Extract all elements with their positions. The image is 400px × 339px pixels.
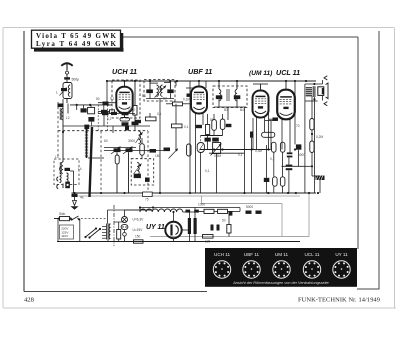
- tube socket UCL 11: [303, 261, 320, 278]
- capacitor C31: [246, 211, 252, 214]
- resistor R7: [172, 124, 183, 128]
- value label 100p: [128, 108, 135, 112]
- selector contacts: [84, 227, 101, 238]
- dashed box oscillator coil: [131, 159, 154, 185]
- value label 50: [222, 219, 226, 223]
- wire R16: [195, 210, 218, 212]
- resistor R27: [218, 209, 233, 215]
- resistor R3: [133, 106, 137, 116]
- capacitor C17: [135, 120, 141, 123]
- ground chain capacitor: [72, 194, 78, 197]
- tube socket UY 11: [333, 261, 350, 278]
- svg-text:75: 75: [145, 198, 149, 202]
- wire R9: [213, 114, 215, 136]
- trim arrow L1: [60, 88, 67, 96]
- schematic frame top border: [120, 36, 358, 38]
- wire pot drops: [201, 153, 217, 194]
- svg-text:UM 11: UM 11: [275, 252, 289, 257]
- svg-text:500p: 500p: [72, 78, 80, 82]
- label tube UBF 11: [188, 67, 212, 76]
- wire lamp down: [124, 236, 126, 241]
- resistor R18: [203, 235, 214, 239]
- wire: [175, 81, 177, 86]
- capacitor C15: [146, 89, 153, 93]
- wire R5 leads: [166, 103, 191, 105]
- capacitor C20: [216, 95, 223, 99]
- coil L6 IF1 secondary: [161, 85, 163, 96]
- svg-text:50: 50: [96, 97, 100, 101]
- capacitor C13: [150, 149, 157, 153]
- wire L1 down: [66, 99, 68, 104]
- wire heater ends: [140, 208, 196, 213]
- resistor R6: [146, 117, 157, 121]
- terminal chevron lower: [324, 102, 327, 106]
- label tube UY 11: [146, 224, 165, 231]
- svg-text:Ansicht der Röhrenfassungen vo: Ansicht der Röhrenfassungen von der Verd…: [232, 281, 328, 285]
- svg-text:4x: 4x: [80, 196, 84, 200]
- socket panel caption: [232, 281, 328, 285]
- resistor R2 oval: [120, 118, 130, 122]
- terminal arc antenna input: [60, 167, 61, 172]
- wire R8: [207, 114, 209, 150]
- wire IF2 bottom row: [214, 106, 246, 108]
- svg-text:Viola T 65 49 GWK: Viola T 65 49 GWK: [36, 32, 117, 40]
- label voltages: [133, 218, 145, 233]
- value label 1000: [198, 203, 205, 207]
- page edge top: [3, 27, 394, 29]
- socket label UM 11: [275, 252, 289, 257]
- socket label UBF 11: [244, 252, 260, 257]
- capacitor C23 det: [205, 138, 211, 142]
- resistor R19 mains: [134, 240, 144, 243]
- fuse Si: [54, 217, 72, 221]
- wire C1 to L1: [66, 80, 68, 83]
- svg-text:1M: 1M: [155, 154, 160, 158]
- value label C1: [72, 78, 80, 82]
- resistor R29 oval: [140, 144, 145, 156]
- wire power bottom bus: [57, 241, 300, 243]
- svg-text:3000: 3000: [128, 139, 135, 143]
- wire pot: [141, 138, 143, 159]
- wire frame gray box top: [201, 196, 282, 204]
- wire speaker bottom: [322, 95, 324, 100]
- tube socket UCH 11: [213, 261, 230, 278]
- label tube UCH 11: [112, 67, 137, 76]
- value label 3000: [128, 139, 135, 143]
- value label 0,1M: [183, 98, 190, 102]
- capacitor C40: [194, 210, 199, 213]
- svg-text:UCH 11: UCH 11: [214, 252, 230, 257]
- wire UBF grid: [189, 88, 191, 193]
- capacitor C18 grid UBF: [187, 94, 193, 97]
- capacitor C16: [167, 89, 173, 93]
- svg-text:U=6,3V: U=6,3V: [133, 218, 145, 222]
- svg-text:1000: 1000: [198, 203, 205, 207]
- svg-text:0,5M: 0,5M: [214, 154, 221, 158]
- value label 5000: [298, 153, 305, 157]
- dash-dot mains boundary: [113, 205, 115, 246]
- capacitor C33: [250, 132, 253, 138]
- svg-text:110V: 110V: [61, 234, 69, 238]
- tube UCL 11: [277, 90, 295, 120]
- terminal arcs ground: [57, 177, 58, 189]
- wire ground chain: [74, 197, 76, 201]
- svg-text:120: 120: [205, 240, 211, 244]
- shielded plug: [65, 182, 70, 189]
- dashed tuning gang link: [58, 130, 148, 132]
- dashed box oscillator section: [112, 80, 140, 118]
- wire chassis bus 1: [72, 192, 317, 194]
- wire tap: [303, 165, 314, 167]
- wire row mid: [186, 87, 194, 89]
- capacitor C39: [186, 210, 191, 213]
- dashed box IF transformer 1: [144, 80, 175, 102]
- coil L8 IF2 secondary: [235, 90, 237, 101]
- svg-text:0,1M: 0,1M: [183, 98, 190, 102]
- svg-text:L: L: [56, 91, 58, 95]
- title text Viola T 65 49 GWK: [36, 32, 117, 40]
- svg-text:5000: 5000: [246, 205, 253, 209]
- value label 0,1: [238, 153, 243, 157]
- value label 0,2M: [316, 135, 323, 139]
- svg-text:B1: B1: [142, 94, 146, 98]
- wire ballast bottom: [107, 240, 109, 242]
- wire chassis bus 2: [74, 195, 300, 197]
- wire: [134, 122, 136, 131]
- value label 5000: [246, 205, 253, 209]
- capacitor C27 electrolytic: [316, 176, 325, 181]
- resistor R17: [227, 225, 231, 234]
- title text Lyra T 64 49 GWK: [36, 40, 117, 48]
- resistor R16 smoothing: [204, 209, 214, 213]
- svg-text:B3: B3: [224, 108, 228, 112]
- coupling arrow IF1: [155, 86, 167, 98]
- label tube (UM 11): [249, 70, 272, 77]
- junction dot right: [311, 133, 313, 135]
- wire antenna lead: [66, 74, 68, 77]
- resistor R15: [117, 230, 121, 240]
- value label 0,1: [184, 125, 189, 129]
- dashed box IF transformer 2: [213, 86, 247, 108]
- capacitor C37: [264, 178, 270, 182]
- wire UCL pins: [282, 119, 290, 152]
- svg-text:0,1: 0,1: [184, 125, 189, 129]
- value label 60: [104, 139, 108, 143]
- wire T1 sec down: [313, 97, 315, 193]
- wire R17: [228, 212, 230, 237]
- dashed gang link vertical 1: [100, 131, 102, 193]
- wire: [103, 114, 105, 127]
- wire: [67, 104, 69, 114]
- value label 0,1: [107, 117, 112, 121]
- socket label UCL 11: [304, 252, 320, 257]
- wire RF drops: [77, 105, 104, 110]
- svg-text:(UM 11): (UM 11): [249, 70, 272, 77]
- wire AVC feedback line: [200, 149, 271, 151]
- wire R13: [311, 97, 313, 135]
- wire C27: [312, 176, 320, 193]
- resistor R21 oval horizontal: [262, 132, 275, 137]
- svg-text:5000: 5000: [298, 153, 305, 157]
- resistor R25 oval: [280, 177, 285, 186]
- value label 50: [96, 97, 100, 101]
- value label 70: [296, 124, 300, 128]
- resistor R23 oval: [280, 142, 285, 152]
- transformer T1 output: [306, 86, 315, 97]
- svg-text:UBF 11: UBF 11: [244, 252, 260, 257]
- page edge bottom: [3, 307, 396, 309]
- wire choke: [228, 208, 241, 212]
- wire: [149, 113, 151, 117]
- wire osc coupling: [88, 157, 104, 159]
- wire: [252, 118, 254, 150]
- wire row: [98, 111, 110, 113]
- value label 50: [210, 118, 214, 122]
- column rule bottom segment: [357, 288, 380, 290]
- speaker LS: [318, 83, 328, 99]
- value label L3: [55, 155, 59, 159]
- capacitor C36 coupling: [286, 165, 293, 171]
- value label 0,5M: [214, 154, 221, 158]
- wire drops IF1 area: [160, 99, 176, 194]
- svg-text:U=19V: U=19V: [133, 228, 144, 232]
- ground symbol: [71, 206, 79, 209]
- wire: [227, 107, 229, 120]
- wire osc row: [104, 147, 136, 149]
- label tube UCL 11: [276, 68, 300, 77]
- capacitor C9: [132, 122, 139, 126]
- wire UY top: [172, 211, 174, 222]
- capacitor C1 antenna series: [64, 77, 70, 79]
- page number 428: [24, 297, 35, 304]
- junction node band switch: [62, 131, 64, 133]
- dial lamp 2: [121, 224, 128, 229]
- page edge right: [394, 28, 396, 309]
- wire: [268, 107, 270, 150]
- column rule right: [378, 31, 380, 289]
- resistor R13 oval: [310, 119, 314, 131]
- wire UBF pins down: [196, 114, 204, 194]
- value label L1: [56, 91, 58, 95]
- svg-text:FUNK-TECHNIK Nr. 14/1949: FUNK-TECHNIK Nr. 14/1949: [298, 297, 380, 304]
- resistor R8: [206, 125, 210, 135]
- trimmer capacitor C11: [111, 147, 121, 155]
- capacitor C22: [226, 124, 232, 127]
- svg-text:Sich.: Sich.: [59, 212, 66, 216]
- label Sich: [59, 212, 66, 216]
- capacitor C10: [125, 126, 129, 131]
- capacitor C2 black-block: [58, 104, 64, 108]
- journal footer: [298, 297, 380, 304]
- capacitor C25 grid UCL: [273, 118, 279, 121]
- value label 0,1: [157, 112, 162, 116]
- wire ballast top: [108, 210, 154, 224]
- svg-text:L4: L4: [78, 167, 82, 171]
- resistor R20 oval hatched: [197, 143, 204, 153]
- svg-text:50: 50: [210, 118, 214, 122]
- wire UM pins: [257, 118, 265, 150]
- schematic frame right border: [357, 37, 359, 249]
- wire IF2 to UM: [244, 107, 246, 193]
- svg-text:0,1: 0,1: [110, 97, 115, 101]
- dashed box oscillator coils: [54, 159, 79, 185]
- label R26: [145, 198, 149, 202]
- wire UCL grid: [269, 119, 277, 149]
- value label 120: [205, 240, 211, 244]
- capacitor C30: [217, 225, 220, 231]
- capacitor C4: [101, 110, 108, 114]
- coil L4 oscillator feedback: [60, 173, 69, 183]
- wire R10: [222, 114, 224, 136]
- wire UBF anode: [198, 81, 200, 87]
- svg-text:UCL 11: UCL 11: [276, 68, 300, 77]
- resistor R24 oval: [273, 177, 278, 186]
- svg-text:50: 50: [222, 219, 226, 223]
- wire RF row: [70, 104, 112, 106]
- coil L2 with core: [60, 108, 63, 120]
- resistor R30 oval UBF cathode: [187, 144, 191, 156]
- value label 0,1: [270, 157, 275, 161]
- wire det row: [200, 135, 222, 137]
- wire UCH screen: [134, 81, 136, 122]
- wire: [106, 81, 108, 103]
- wire UCH cathode down: [124, 113, 126, 117]
- value label 1M: [155, 154, 160, 158]
- wire T1 box: [305, 83, 323, 101]
- schematic frame left border: [23, 31, 25, 292]
- svg-text:0,3M: 0,3M: [255, 149, 262, 153]
- socket label UCH 11: [214, 252, 230, 257]
- svg-text:UBF 11: UBF 11: [188, 67, 212, 76]
- value label 150: [135, 235, 141, 239]
- svg-text:0,1: 0,1: [107, 117, 112, 121]
- capacitor C8: [122, 122, 129, 125]
- svg-text:UCL 11: UCL 11: [304, 252, 320, 257]
- ballast taps: [102, 227, 106, 239]
- title box shadow: [34, 33, 124, 52]
- value label L4: [78, 167, 82, 171]
- capacitor C38 input: [65, 168, 71, 171]
- wire AVC feedback line 2: [209, 152, 245, 154]
- value label 0,1: [110, 97, 115, 101]
- svg-text:Lyra T 64 49 GWK: Lyra T 64 49 GWK: [36, 40, 117, 48]
- dashed RF verticals: [98, 105, 108, 131]
- wire frame gray box bottom: [150, 236, 309, 238]
- wire: [62, 99, 64, 104]
- wire row under IF: [104, 150, 167, 152]
- potentiometer P2 volume: [211, 143, 222, 156]
- wire IF1 legs: [150, 81, 171, 99]
- capacitor C5: [102, 112, 109, 115]
- capacitor C6: [111, 112, 117, 115]
- wire: [189, 81, 191, 88]
- capacitor C43: [84, 125, 89, 129]
- dashed antenna section boundary: [57, 102, 59, 158]
- svg-text:UY 11: UY 11: [335, 252, 348, 257]
- capacitor C34: [296, 144, 302, 149]
- coil L7 IF2 primary: [219, 90, 221, 101]
- tube socket panel background: [205, 248, 357, 287]
- wire anode supply bus: [107, 80, 316, 82]
- value label B3: [224, 108, 228, 112]
- tone arrow: [169, 149, 179, 159]
- svg-text:L2: L2: [66, 116, 70, 120]
- svg-text:70: 70: [296, 124, 300, 128]
- resistor R9 oval: [212, 120, 217, 131]
- wire UCL anode: [285, 81, 287, 90]
- capacitor C41: [81, 108, 87, 112]
- junction dots on anode bus: [106, 80, 307, 82]
- tube (UM 11): [253, 91, 269, 118]
- tuning gang capacitor plates: [85, 127, 88, 158]
- svg-text:UCH 11: UCH 11: [112, 67, 137, 76]
- wire band column lower: [62, 132, 64, 162]
- wire cap row top: [98, 113, 135, 115]
- value label L2: [66, 116, 70, 120]
- wire detector output line: [282, 165, 303, 167]
- wire: [159, 86, 161, 90]
- ballast winding: [109, 224, 111, 238]
- svg-text:100p: 100p: [128, 108, 135, 112]
- capacitor C7: [122, 112, 129, 115]
- wire mains down: [79, 219, 81, 241]
- wire L4 to bus: [62, 184, 64, 189]
- wire gang row: [63, 125, 150, 127]
- junction dots feedback: [213, 148, 319, 194]
- svg-text:L3: L3: [55, 155, 59, 159]
- resistor R5: [173, 102, 183, 106]
- capacitor C44 padder: [134, 174, 141, 178]
- wire R14: [311, 134, 313, 176]
- wire T1 primary bottom: [304, 101, 306, 193]
- dashed switch link: [77, 218, 106, 220]
- capacitor C2a padding: [61, 88, 67, 91]
- tube socket UBF 11: [243, 261, 260, 278]
- wire UCH anode to bus: [124, 81, 126, 87]
- value label 0,1: [205, 169, 210, 173]
- tuning gang drive shaft: [90, 127, 93, 197]
- wire IF2 legs: [219, 81, 237, 107]
- svg-text:60: 60: [104, 139, 108, 143]
- wire R15: [114, 222, 124, 242]
- switch S1 mains: [70, 216, 80, 221]
- svg-text:B4: B4: [240, 108, 244, 112]
- polarity element: [73, 201, 77, 206]
- svg-text:0,1: 0,1: [238, 153, 243, 157]
- tube UCH 11: [116, 87, 132, 113]
- resistor R10 oval: [220, 119, 225, 130]
- dashed gang link vertical 2: [147, 131, 149, 193]
- wire mains left leg: [54, 219, 58, 242]
- resistor R4 oval: [115, 155, 119, 164]
- capacitor C19: [196, 125, 203, 128]
- capacitor C45: [145, 178, 150, 182]
- capacitor C21: [234, 95, 241, 99]
- dashed line det: [199, 136, 201, 143]
- tube UBF 11: [191, 87, 207, 114]
- svg-text:0,1: 0,1: [270, 157, 275, 161]
- wire: [112, 126, 114, 133]
- coil L11 oscillator: [134, 163, 142, 175]
- socket label UY 11: [335, 252, 348, 257]
- wire lamps: [125, 210, 154, 233]
- wire electrolytic bottom: [190, 234, 196, 242]
- wire grid UCH: [98, 102, 117, 104]
- wire: [205, 81, 207, 88]
- resistor R1: [110, 110, 115, 113]
- heater chain filaments: [140, 209, 183, 212]
- value label 0,3M: [255, 149, 262, 153]
